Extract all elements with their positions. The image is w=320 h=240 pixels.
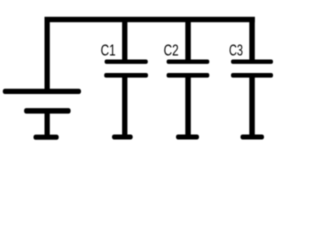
battery bottom terminal: [34, 135, 59, 140]
wire C1 top lead: [122, 22, 127, 61]
capacitor C1: [104, 60, 148, 78]
wire C3 bottom lead: [249, 78, 255, 140]
capacitor C2: [167, 60, 210, 78]
wire C2 top lead: [185, 22, 191, 61]
wire battery top lead: [45, 17, 50, 89]
capacitor C3: [231, 60, 273, 78]
wire battery bottom lead: [45, 114, 50, 140]
svg-text:C2: C2: [164, 42, 179, 59]
C3 bottom terminal: [241, 135, 265, 140]
svg-text:C1: C1: [101, 42, 116, 59]
C1 bottom terminal: [112, 135, 133, 140]
svg-text:C3: C3: [229, 42, 243, 59]
wire C3 top lead: [249, 22, 255, 61]
wire top bus: [45, 17, 255, 22]
C2 bottom terminal: [176, 135, 199, 140]
wire C1 bottom lead: [122, 78, 127, 140]
battery cell: [3, 89, 81, 114]
wire C2 bottom lead: [185, 78, 191, 140]
